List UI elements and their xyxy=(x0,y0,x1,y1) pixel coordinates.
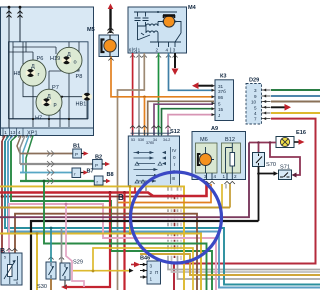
wire yellow bus A xyxy=(0,186,184,290)
svg-text:3: 3 xyxy=(204,174,207,179)
ground arrow D29 pin5 xyxy=(285,104,292,111)
wire break mark xyxy=(47,170,54,176)
ground stub with arrow left of K3 pin 31 xyxy=(198,85,213,87)
svg-text:К3: К3 xyxy=(220,74,227,80)
wire A9 yellow riser to olive bus xyxy=(229,184,231,208)
connector arrows above rheostat pins xyxy=(7,248,18,251)
wire P7 top lead xyxy=(48,71,50,89)
wire M4 pin1 taupe down-left-down long run xyxy=(118,53,145,290)
wire teal drop into S30 xyxy=(50,228,52,262)
wire D29 pin9 blue to right edge xyxy=(271,95,320,97)
wire grey bundle A xyxy=(168,187,320,270)
wire black S70 to S71 xyxy=(259,167,276,174)
wire red drop to bottom-left run xyxy=(66,193,110,288)
node xyxy=(68,118,70,120)
instrument cluster box (combination meter) xyxy=(1,7,94,136)
wire D29 pin7 crimson down right edge to B46 xyxy=(174,119,316,290)
node dark red junction xyxy=(1,195,4,198)
wire D29 pin10 brown to right edge xyxy=(271,101,320,103)
wire yellow bus B lower to gold run xyxy=(140,254,320,275)
wire xyxy=(69,42,79,71)
wire A9 grey stub xyxy=(225,184,227,189)
svg-text:о: о xyxy=(74,60,77,66)
connector arrow under M5 xyxy=(108,58,113,61)
node junction on top rail xyxy=(8,6,11,9)
node maroon junction S71 branch xyxy=(269,141,272,144)
wire grey feed B2 xyxy=(20,163,93,165)
wire pink from S12 to K3 pin J xyxy=(168,115,213,135)
inner lamp panel box xyxy=(9,42,89,119)
svg-text:Р6: Р6 xyxy=(37,56,44,62)
svg-text:53б: 53б xyxy=(138,138,144,142)
svg-text:13: 13 xyxy=(10,130,16,135)
svg-text:Р: Р xyxy=(75,152,78,157)
wire red drop to bottom edge xyxy=(123,193,125,290)
node xyxy=(48,118,50,120)
connector B7 xyxy=(72,168,81,178)
wire grey feed into S29 xyxy=(61,228,63,263)
wire break mark xyxy=(47,161,54,167)
wire maroon bus xyxy=(2,196,175,198)
svg-text:53: 53 xyxy=(131,138,135,142)
relay connector K3 xyxy=(212,80,234,121)
svg-text:Н7: Н7 xyxy=(35,116,42,122)
ground arrow K3 pin31 stub xyxy=(192,82,199,89)
wire M4 pin3 ground stub xyxy=(174,53,176,68)
wire yellow short bus C xyxy=(0,234,201,290)
wire grey bundle C xyxy=(172,187,320,272)
connector arrow on wire x9 xyxy=(7,11,12,18)
column switch S12 xyxy=(128,130,179,187)
wire H8 bottom lead xyxy=(32,86,34,127)
svg-text:2: 2 xyxy=(156,48,159,53)
wire break mark xyxy=(47,178,54,184)
hop gaps where buses cross the bundle xyxy=(166,193,183,255)
svg-text:D29: D29 xyxy=(249,78,259,84)
lamp HB1 on cluster edge xyxy=(82,93,92,101)
wire xyxy=(8,7,10,128)
arrow crimson into B46 xyxy=(131,264,135,266)
wire yellow from S29 to B46 xyxy=(73,270,130,272)
wire stub S12 bottom 3 xyxy=(145,187,147,192)
wire M4 pin6 red to S12 xyxy=(132,53,134,135)
lamp H19 xyxy=(56,47,82,73)
arrow yellow into B46 xyxy=(129,268,134,272)
svg-text:S12: S12 xyxy=(170,129,180,135)
arrow at B2 xyxy=(102,163,105,165)
power arrow at E16 xyxy=(299,139,305,145)
wire yellow riser at S29 xyxy=(93,248,193,290)
connector arrows on fan stubs xyxy=(2,135,32,137)
dashboard light rheostat box xyxy=(1,253,22,285)
svg-text:В8: В8 xyxy=(107,172,114,178)
svg-text:М5: М5 xyxy=(87,27,95,33)
wire break mark xyxy=(47,151,54,157)
pin stubs below XP1 (coloured fan) xyxy=(2,136,33,182)
wire to HB1 xyxy=(62,96,83,98)
wire A9 pin4 orange riser xyxy=(210,184,212,191)
svg-text:10: 10 xyxy=(251,100,257,105)
wire xyxy=(49,70,69,72)
wire brown stub below S30 xyxy=(50,279,52,290)
svg-text:4: 4 xyxy=(254,111,257,116)
svg-text:5: 5 xyxy=(218,102,221,107)
svg-text:Р: Р xyxy=(95,163,98,168)
washer pump motor M5 xyxy=(99,35,119,57)
switch S70 xyxy=(253,153,265,167)
wire maroon drop to S70 xyxy=(258,143,260,153)
svg-text:Д: Д xyxy=(31,64,35,70)
svg-text:5: 5 xyxy=(133,48,136,53)
wire xyxy=(9,118,89,120)
svg-text:7: 7 xyxy=(254,117,257,122)
svg-text:4: 4 xyxy=(166,48,169,53)
wire D29 pin4 yellow to right edge xyxy=(271,112,320,114)
node teal junction xyxy=(50,227,53,230)
wire H8 top lead xyxy=(32,52,34,60)
node orange branch xyxy=(143,96,146,99)
wire dark red bundle vertical xyxy=(174,197,176,259)
node black junction xyxy=(257,172,260,175)
svg-text:6: 6 xyxy=(16,281,18,285)
arrow at B7 xyxy=(81,172,84,174)
wire dark stub below S29 xyxy=(64,280,66,287)
node red junction xyxy=(109,191,112,194)
arrow black into S71 xyxy=(274,171,279,175)
svg-text:Н19: Н19 xyxy=(50,56,60,62)
wire xyxy=(12,42,14,119)
wire stub S12 bottom 2 xyxy=(140,187,142,192)
svg-text:1: 1 xyxy=(4,130,7,135)
svg-text:2: 2 xyxy=(150,270,153,275)
wire olive bus to A9 yellow riser xyxy=(0,207,230,209)
node junction on top rail xyxy=(19,6,22,9)
connector arrow on M5 feed xyxy=(108,28,114,34)
wire blue from XP1 bus down mid xyxy=(8,141,320,288)
svg-text:Н8: Н8 xyxy=(14,71,21,77)
wire purple bus xyxy=(0,143,249,218)
resistor B12 xyxy=(230,153,235,167)
wire xyxy=(55,47,57,54)
wire purple from S12 to K3 pin 5 xyxy=(154,104,213,135)
connector arrows above S30 S29 xyxy=(48,257,64,260)
highlight circle (blue ring) xyxy=(131,172,222,263)
wire brown from S12 toward D29 xyxy=(148,101,214,135)
wire maroon branch to S71 xyxy=(270,143,300,176)
connector D29 (dashed, optional) xyxy=(246,84,271,125)
connector B8 xyxy=(94,176,103,185)
wire A9 pin3 red riser to red bus xyxy=(206,184,208,193)
wire green branch from B8 feed down across xyxy=(44,181,207,290)
arrow maroon into S71 xyxy=(292,173,297,178)
wire brown feed B1 xyxy=(20,153,73,155)
wire xyxy=(19,7,21,42)
svg-text:86: 86 xyxy=(218,95,224,100)
svg-text:S29: S29 xyxy=(73,260,83,266)
wire yellow riser to yellow bus A xyxy=(129,186,131,233)
svg-text:5: 5 xyxy=(254,105,257,110)
node xyxy=(32,118,34,120)
svg-text:1: 1 xyxy=(150,277,153,282)
connector B1 xyxy=(73,149,82,158)
wire M4 pin5 grey to S12 xyxy=(138,53,140,135)
svg-text:III: III xyxy=(172,176,176,181)
connector strip XP1 xyxy=(1,128,94,136)
svg-text:М4: М4 xyxy=(188,5,197,11)
svg-text:S70: S70 xyxy=(266,162,276,168)
motor in M4 xyxy=(163,16,174,27)
wire D29 pin3 green to right edge xyxy=(271,89,320,91)
svg-text:37б: 37б xyxy=(218,89,226,94)
svg-text:В: В xyxy=(118,193,124,202)
node xyxy=(61,96,63,98)
wire orange bus to A9 xyxy=(118,190,211,203)
wire pink branch to S29 area xyxy=(66,204,84,287)
arrow at B1 xyxy=(81,153,84,155)
relay contact in M4 xyxy=(138,35,151,40)
wire M5 feed xyxy=(109,9,111,33)
svg-text:3: 3 xyxy=(173,48,176,53)
wire xyxy=(23,42,37,97)
wire grey bundle B xyxy=(178,187,320,279)
node yellow junction mid xyxy=(129,232,132,235)
svg-text:Р7: Р7 xyxy=(52,85,59,91)
wire H19 bottom lead xyxy=(68,74,70,128)
wire M4 pin4 teal to K3 pin 37b xyxy=(169,53,214,90)
heater blower unit A9 xyxy=(192,132,246,180)
connector B2 xyxy=(93,160,103,170)
wire green from XP1 bus xyxy=(11,141,212,290)
node maroon junction S70 xyxy=(257,141,260,144)
svg-text:В7: В7 xyxy=(87,169,94,175)
wire green feed B8 xyxy=(20,180,94,182)
node pink junction xyxy=(65,203,68,206)
switch S30 xyxy=(46,262,56,279)
svg-text:НВ1: НВ1 xyxy=(76,102,87,108)
svg-text:5: 5 xyxy=(4,256,6,260)
arrow at B8 xyxy=(103,180,106,182)
svg-text:В2: В2 xyxy=(95,155,102,161)
wire black bus xyxy=(31,221,259,290)
wire dark green from S12 to K3 pin 15 xyxy=(162,109,214,135)
node green junction xyxy=(43,180,46,183)
connector B46 xyxy=(140,261,161,284)
node yellow junction xyxy=(36,232,39,235)
lamp E16 xyxy=(276,137,299,148)
lamp H8 xyxy=(20,60,46,86)
wire M4 pin2 green to S12 xyxy=(158,53,160,135)
power arrow feed of M5 xyxy=(108,4,114,10)
svg-text:34-2: 34-2 xyxy=(163,138,170,142)
wire orange branch to S12 xyxy=(144,97,146,135)
connector arrow on wire x20 xyxy=(18,11,23,18)
svg-text:М6: М6 xyxy=(200,137,208,143)
wire maroon feed to E16 xyxy=(249,142,276,144)
wire pale bundle D xyxy=(180,187,182,260)
arrow red end xyxy=(61,284,67,289)
wire yellow drop at x37 xyxy=(36,234,38,290)
wire D29 pin5 ground stub xyxy=(271,106,285,108)
pin leads at bottom of A9 xyxy=(207,173,233,180)
svg-text:4: 4 xyxy=(18,130,21,135)
svg-text:9: 9 xyxy=(254,94,257,99)
svg-text:П: П xyxy=(155,270,158,275)
svg-text:1: 1 xyxy=(223,174,226,179)
svg-text:Р8: Р8 xyxy=(76,74,83,80)
svg-text:г: г xyxy=(38,72,40,78)
wire xyxy=(13,46,56,48)
svg-text:Д: Д xyxy=(47,94,51,100)
svg-text:2: 2 xyxy=(234,174,237,179)
wire xyxy=(9,51,34,53)
wire xyxy=(25,42,27,52)
motor M6 xyxy=(200,154,212,166)
svg-text:34: 34 xyxy=(153,138,157,142)
svg-text:0: 0 xyxy=(173,155,176,160)
node yellow junction xyxy=(92,270,95,273)
svg-text:Д: Д xyxy=(67,52,71,58)
svg-text:3: 3 xyxy=(150,264,153,269)
wire stubs S12 bottom xyxy=(134,187,136,193)
svg-text:1: 1 xyxy=(138,48,141,53)
svg-text:Е16: Е16 xyxy=(296,130,306,136)
wire black long run S70 down to black bus xyxy=(258,174,260,222)
svg-text:S30: S30 xyxy=(37,284,47,290)
svg-text:р: р xyxy=(54,102,57,108)
ground arrow under M4 pin3 xyxy=(172,69,179,76)
connector arrows under M4 pins xyxy=(130,55,178,58)
node red junction 2 xyxy=(123,191,126,194)
svg-text:I: I xyxy=(174,162,175,167)
connector arrows above S12 pins xyxy=(130,126,171,129)
wire A9 yellow stub 2 xyxy=(221,184,223,208)
svg-text:J: J xyxy=(218,113,220,118)
wire red main bus (thick) xyxy=(0,184,207,196)
wire pink bus from rheostat xyxy=(9,204,216,290)
wire M5 orange to K3 pin 86 xyxy=(111,57,213,97)
wiper motor assembly M4 xyxy=(128,7,187,53)
svg-text:15: 15 xyxy=(218,107,224,112)
wire dark red from XP1 to maroon bus xyxy=(1,141,3,253)
wire xyxy=(59,101,61,127)
wire HB1 bottom lead xyxy=(86,101,88,119)
wire P7 bottom lead xyxy=(48,115,50,127)
svg-text:В46: В46 xyxy=(140,256,150,262)
svg-text:В12: В12 xyxy=(225,137,235,143)
wire maroon illumination bus from rheostat to E16 riser xyxy=(15,214,197,290)
svg-text:А9: А9 xyxy=(211,126,218,132)
wire teal from XP1 long bus to bottom right edge xyxy=(5,141,320,285)
node yellow junction top xyxy=(129,185,132,188)
switch S71 xyxy=(279,170,292,180)
switch S29 xyxy=(60,263,70,280)
svg-text:6: 6 xyxy=(129,48,132,53)
wire H19 top lead xyxy=(68,42,70,48)
lamp P7 xyxy=(36,89,62,115)
connector arrows under A9 pins xyxy=(204,181,235,184)
svg-text:В1: В1 xyxy=(73,144,80,150)
svg-text:4: 4 xyxy=(214,174,217,179)
wire light blue feed B7 xyxy=(20,172,72,174)
svg-text:3: 3 xyxy=(254,88,257,93)
